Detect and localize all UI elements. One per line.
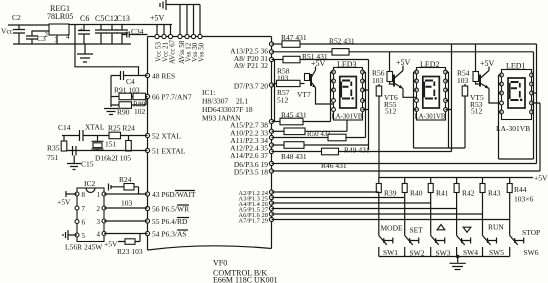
- pin A9/P21 32: [234, 57, 274, 69]
- wire segment bus a: [300, 43, 537, 45]
- resistor R47: [272, 33, 307, 47]
- pin LED2 L2: [415, 79, 419, 83]
- pin IC2-7: [75, 205, 86, 213]
- capacitor C15: [73, 146, 94, 169]
- svg-text:Vss 50: Vss 50: [198, 42, 206, 62]
- pin AVcc 67: [168, 34, 176, 64]
- pin 56 P6.5/WR: [145, 205, 189, 214]
- svg-text:+5V: +5V: [396, 58, 411, 67]
- resistor R54: [457, 44, 480, 85]
- pin A12/P2.4 35: [230, 143, 274, 153]
- wire key bus A5: [272, 208, 457, 210]
- svg-text:102: 102: [134, 107, 146, 116]
- svg-text:103: 103: [121, 199, 133, 208]
- capacitor C14: [62, 130, 92, 141]
- svg-text:Vcc: Vcc: [1, 27, 14, 36]
- pin LED1 L3: [500, 91, 504, 95]
- svg-text:A14/P2.6 37: A14/P2.6 37: [230, 151, 268, 160]
- svg-text:78LR05: 78LR05: [47, 12, 73, 21]
- node +5V: [150, 14, 165, 23]
- node +5V VT6: [396, 58, 411, 67]
- svg-text:103: 103: [277, 74, 289, 83]
- display LED3: [332, 60, 363, 121]
- svg-text:+: +: [79, 25, 83, 34]
- svg-text:LED2: LED2: [420, 60, 440, 69]
- pin LED2 R1: [444, 70, 448, 74]
- svg-text:4: 4: [66, 33, 70, 41]
- switch SW4 down: [457, 227, 479, 257]
- svg-text:6: 6: [82, 219, 86, 227]
- svg-text:SET: SET: [410, 226, 424, 235]
- svg-text:LED3: LED3: [337, 60, 357, 69]
- wire +5V feed down: [75, 25, 139, 76]
- pin A7/P1.7 29: [238, 217, 273, 224]
- pin LED2 L5: [415, 108, 419, 112]
- wire switch common bus: [379, 256, 510, 258]
- ground IC2 pin5: [63, 230, 77, 240]
- svg-text:1: 1: [97, 191, 101, 199]
- svg-text:R39: R39: [384, 189, 397, 198]
- resistor R50a: [272, 120, 348, 138]
- pin 43 P6D/WAIT: [145, 190, 196, 199]
- resistor R39: [376, 178, 396, 236]
- pin LED3 L5: [332, 108, 336, 112]
- svg-text:66 P7.7/AN7: 66 P7.7/AN7: [152, 93, 192, 102]
- svg-text:C13: C13: [117, 14, 130, 23]
- wire ground rail: [13, 43, 131, 45]
- wire LED2 left riser: [414, 72, 417, 148]
- pin LED2 R4: [444, 99, 448, 103]
- resistor R49: [272, 142, 370, 155]
- transistor VT5: [470, 67, 489, 103]
- pin 52 XTAL: [145, 132, 181, 141]
- pin A14/P2.6 37: [230, 149, 274, 160]
- pin A6/P1.6 28: [238, 212, 273, 219]
- pin LED1 L1: [500, 73, 504, 77]
- pin 48 RES: [145, 72, 175, 81]
- ground: [67, 164, 81, 170]
- svg-text:R44: R44: [514, 185, 527, 194]
- svg-text:VF0: VF0: [213, 259, 227, 268]
- svg-text:R49 431: R49 431: [344, 146, 370, 155]
- pin LED3 L1: [332, 70, 336, 74]
- svg-text:R47 431: R47 431: [281, 33, 307, 42]
- pin A4/P1.4 26: [238, 201, 273, 208]
- pin LED1 L5: [500, 110, 504, 114]
- pin LED3 L4: [332, 99, 336, 103]
- resistor R90: [111, 97, 146, 117]
- node junction: [456, 255, 460, 259]
- svg-text:D5/P3.5 18: D5/P3.5 18: [234, 167, 268, 176]
- pin LED1 R4: [530, 101, 534, 105]
- capacitor C6: [78, 14, 90, 44]
- wire D5 riser: [539, 103, 541, 171]
- svg-text:R25 R24: R25 R24: [108, 124, 135, 133]
- op-amp IC1 body H8/3307: [148, 37, 272, 251]
- svg-text:XTAL: XTAL: [85, 123, 105, 132]
- label VF0 COMTROL: [213, 259, 278, 283]
- switch SW6 STOP: [510, 228, 541, 257]
- pin LED1 R5: [530, 110, 534, 114]
- wire D5 row: [272, 170, 541, 172]
- switch SW5 RUN: [483, 223, 505, 258]
- svg-text:C6: C6: [80, 14, 89, 23]
- wire IC2 pin2 to 56: [104, 199, 148, 209]
- svg-text:52 XTAL: 52 XTAL: [152, 132, 181, 141]
- svg-text:L56R 245W: L56R 245W: [65, 243, 103, 252]
- pin 51 EXTAL: [145, 147, 185, 156]
- pin LED1 R3: [530, 91, 534, 95]
- svg-text:4: 4: [97, 231, 101, 239]
- svg-text:+5V: +5V: [480, 59, 495, 68]
- capacitor C13: [116, 14, 130, 44]
- wire LED3 left riser: [331, 72, 334, 122]
- transistor VT7: [297, 67, 316, 100]
- wire LED3 right risers: [363, 72, 369, 138]
- svg-text:512: 512: [385, 107, 397, 116]
- resistor R55: [376, 84, 397, 178]
- svg-text:C14: C14: [58, 123, 71, 132]
- wire Vcc input: [8, 24, 49, 26]
- resistor R44: [507, 178, 533, 236]
- pin D7/P3.7 20: [234, 82, 274, 91]
- wire +5V output: [69, 24, 172, 26]
- svg-text:103: 103: [372, 76, 384, 85]
- svg-text:48 RES: 48 RES: [152, 72, 175, 81]
- pin A11/P2.3 34: [230, 135, 273, 145]
- wire key bus A7: [272, 219, 510, 221]
- resistor R24 xtal: [126, 136, 132, 152]
- pin A5/P1.5 27: [238, 206, 273, 213]
- resistor R42: [454, 178, 475, 236]
- svg-text:C3: C3: [37, 34, 46, 43]
- crystal XTAL: [92, 136, 110, 151]
- svg-text:STOP: STOP: [522, 228, 540, 237]
- ground switches: [450, 257, 466, 270]
- pin LED3 L2: [332, 79, 336, 83]
- capacitor C5: [95, 14, 107, 44]
- svg-text:SW6: SW6: [524, 248, 539, 257]
- pin D6/P3.6 19: [234, 160, 274, 169]
- wire VT5 emitter: [489, 89, 502, 104]
- pin AVss 58: [178, 34, 186, 64]
- svg-text:3: 3: [97, 218, 101, 226]
- wire R91 node: [110, 76, 112, 108]
- node +5V VT7: [311, 59, 326, 68]
- pin A8/P20 31: [234, 50, 274, 63]
- pin 54 P6.3/AS: [145, 230, 188, 239]
- pin Vss 50: [198, 34, 206, 62]
- ground: [77, 44, 93, 62]
- svg-text:VT7: VT7: [297, 90, 311, 99]
- pin LED2 L4: [415, 99, 419, 103]
- pin LED3 R4: [361, 99, 365, 103]
- svg-text:R23 103: R23 103: [117, 247, 143, 256]
- resistor R53: [452, 84, 483, 148]
- svg-text:LA-301VB: LA-301VB: [332, 114, 363, 121]
- svg-text:IC2: IC2: [84, 179, 96, 188]
- capacitor C2: [12, 13, 25, 44]
- svg-text:D16k2I 105: D16k2I 105: [95, 154, 131, 163]
- svg-text:R52 431: R52 431: [329, 37, 355, 46]
- pin Vss 12: [185, 34, 193, 62]
- svg-text:751: 751: [47, 153, 59, 162]
- label D16k2I 105: [95, 154, 131, 163]
- pin A10/P2.2 33: [230, 128, 274, 137]
- svg-text:A9/ P21 32: A9/ P21 32: [234, 61, 268, 70]
- resistor R57: [277, 74, 310, 105]
- wire LED2 right risers: [446, 72, 452, 148]
- wire segment bus c: [300, 59, 369, 61]
- resistor R40: [402, 178, 423, 236]
- wire bus c drop: [363, 60, 369, 151]
- svg-text:+5V: +5V: [57, 198, 71, 207]
- wire key bus A3: [272, 197, 405, 199]
- svg-text:+5V: +5V: [311, 59, 326, 68]
- capacitor C4: [121, 71, 136, 86]
- pin A13/P2.5 36: [230, 42, 274, 56]
- wire key bus A6: [272, 213, 483, 215]
- svg-text:512: 512: [277, 96, 289, 105]
- resistor R89: [133, 93, 148, 108]
- transistor VT6: [384, 66, 403, 103]
- svg-text:E66M 118C UK001: E66M 118C UK001: [213, 276, 278, 283]
- wire LED1 left riser: [499, 75, 502, 159]
- resistor R43: [480, 178, 501, 236]
- svg-text:55 P6.4/RD: 55 P6.4/RD: [152, 217, 188, 226]
- resistor R52: [272, 37, 355, 56]
- wire D6 row R46: [272, 161, 537, 170]
- svg-text:R35: R35: [47, 144, 60, 153]
- svg-text:51 EXTAL: 51 EXTAL: [152, 147, 186, 156]
- pin IC2-8: [75, 191, 86, 199]
- svg-text:R48 431: R48 431: [281, 152, 307, 161]
- pin IC2-4: [97, 231, 107, 239]
- pin LED1 L2: [500, 82, 504, 86]
- svg-text:MODE: MODE: [381, 224, 404, 233]
- switch SW1 MODE: [379, 224, 403, 258]
- pin IC2-3: [97, 218, 107, 226]
- svg-text:AVcc 67: AVcc 67: [169, 39, 177, 64]
- pin A2/P1.2 24: [238, 190, 273, 197]
- capacitor C34: [122, 27, 148, 38]
- pin LED2 L3: [415, 88, 419, 92]
- svg-text:SW4: SW4: [463, 248, 478, 257]
- svg-text:C2: C2: [12, 13, 21, 22]
- switch SW3 up: [431, 225, 451, 258]
- pin A15/P2.7 38: [230, 119, 274, 129]
- svg-text:C5: C5: [95, 14, 104, 23]
- svg-text:56 P6.5/WR: 56 P6.5/WR: [152, 205, 189, 214]
- pin 55 P6.4/RD: [145, 217, 189, 226]
- wire Vss pin drops: [180, 5, 200, 37]
- pin LED2 L1: [415, 70, 419, 74]
- svg-text:R90: R90: [117, 108, 130, 117]
- pin Vcc 21: [162, 34, 170, 62]
- node Vcc: [1, 27, 14, 36]
- pin IC2-2: [97, 205, 107, 213]
- wire VT6 emitter: [403, 89, 417, 98]
- pin A3/P1.3 25: [238, 195, 273, 202]
- svg-text:C15: C15: [81, 160, 94, 169]
- wire IC2 pin4 to 54: [104, 233, 148, 235]
- svg-text:LA-301VB: LA-301VB: [415, 114, 446, 121]
- svg-text:7: 7: [82, 205, 86, 213]
- pin Vss 30: [191, 34, 199, 62]
- wire Vcc pin drops: [157, 25, 171, 37]
- wire EXTAL row: [64, 150, 148, 152]
- svg-text:R40: R40: [410, 189, 423, 198]
- pin LED3 R2: [361, 79, 365, 83]
- capacitor C3: [26, 31, 49, 44]
- wire VT7 base feed: [272, 60, 277, 122]
- svg-text:43 P6D/WAIT: 43 P6D/WAIT: [152, 190, 196, 199]
- wire +5V rail switches: [379, 174, 548, 183]
- svg-text:R43: R43: [488, 189, 501, 198]
- svg-text:R41: R41: [436, 189, 449, 198]
- svg-text:+5V: +5V: [104, 240, 118, 249]
- svg-text:512: 512: [471, 107, 483, 116]
- pin LED3 R3: [361, 88, 365, 92]
- svg-text:+5V: +5V: [534, 174, 548, 183]
- svg-text:103×6: 103×6: [514, 195, 533, 204]
- pin LED3 L3: [332, 88, 336, 92]
- resistor R56: [372, 52, 394, 85]
- svg-text:R46 431: R46 431: [321, 161, 347, 170]
- svg-text:LED1: LED1: [506, 62, 526, 71]
- svg-text:A7/P1.7 29: A7/P1.7 29: [238, 218, 268, 225]
- resistor R50b: [272, 134, 366, 141]
- pin LED2 R5: [444, 108, 448, 112]
- wire bus a drop: [536, 44, 538, 164]
- wire segment bus b: [349, 52, 534, 159]
- resistor R25: [105, 132, 148, 148]
- svg-text:103: 103: [457, 76, 469, 85]
- wire key bus A2: [272, 191, 379, 193]
- ground: [104, 109, 118, 115]
- svg-text:RUN: RUN: [488, 223, 504, 232]
- wire IC2 pin1 to 43: [104, 193, 148, 195]
- pin Vcc 53: [155, 34, 163, 62]
- resistor R45: [272, 111, 331, 125]
- wire REG1 ground pin: [56, 35, 58, 44]
- node +5V IC2: [57, 191, 77, 207]
- pin IC2-5: [75, 232, 86, 240]
- resistor R91: [111, 86, 140, 100]
- svg-text:8: 8: [82, 191, 86, 199]
- pin LED1 L4: [500, 101, 504, 105]
- pin IC2-6: [75, 219, 86, 227]
- wire VT7 emitter: [316, 88, 334, 105]
- pin LED1 R2: [530, 82, 534, 86]
- svg-text:D7/P3.7 20: D7/P3.7 20: [234, 82, 268, 91]
- switch SW2 SET: [405, 226, 425, 258]
- resistor R23: [104, 234, 143, 257]
- resistor R51: [272, 52, 328, 63]
- pin LED3 R5: [361, 108, 365, 112]
- svg-text:R45 431: R45 431: [281, 111, 307, 120]
- resistor R41: [428, 178, 449, 236]
- node +5V VT5: [480, 59, 495, 68]
- svg-text:54 P6.3/AS: 54 P6.3/AS: [152, 230, 187, 239]
- svg-text:+5V: +5V: [150, 14, 165, 23]
- svg-text:2: 2: [97, 205, 101, 213]
- resistor R58: [277, 67, 305, 87]
- pin LED1 R1: [530, 73, 534, 77]
- svg-text:SW1: SW1: [383, 248, 398, 257]
- pin 66 P7.7/AN7: [145, 93, 191, 102]
- pin IC2-1: [97, 191, 107, 199]
- display LED1: [496, 62, 532, 134]
- svg-text:R24: R24: [119, 175, 132, 184]
- label C14/XTAL row: [58, 123, 135, 133]
- svg-text:5: 5: [82, 232, 86, 240]
- pin D5/P3.5 18: [234, 167, 274, 176]
- pin LED2 R2: [444, 79, 448, 83]
- svg-text:C34: C34: [131, 27, 144, 36]
- svg-text:SW5: SW5: [489, 248, 504, 257]
- wire key bus A4: [272, 202, 431, 204]
- svg-text:LA-301VB: LA-301VB: [496, 124, 530, 133]
- resistor R48: [272, 148, 452, 161]
- regulator REG1 78LR05: [45, 4, 74, 44]
- wire C4/RES net: [111, 75, 148, 77]
- wire LED1 right risers: [499, 75, 541, 159]
- resistor R24: [109, 175, 139, 194]
- ground top: [160, 0, 200, 10]
- diagram IC2 body: [65, 179, 104, 252]
- pin LED2 R3: [444, 88, 448, 92]
- svg-text:R42: R42: [462, 189, 475, 198]
- resistor R35: [47, 136, 67, 163]
- wire IC2 pin3 to 55: [104, 220, 148, 222]
- display LED2: [415, 60, 446, 121]
- pin LED3 R1: [361, 70, 365, 74]
- svg-text:151: 151: [105, 140, 117, 149]
- capacitor C12: [105, 14, 119, 44]
- wire bus b drop: [414, 44, 452, 152]
